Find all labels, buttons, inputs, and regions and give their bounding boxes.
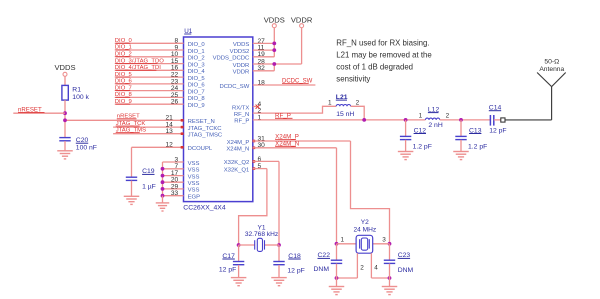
svg-text:DNM: DNM <box>314 266 330 273</box>
svg-text:2 nH: 2 nH <box>428 122 442 129</box>
svg-text:100 nF: 100 nF <box>76 145 97 152</box>
svg-text:1 µF: 1 µF <box>142 183 156 190</box>
svg-text:50-Ω: 50-Ω <box>544 58 559 65</box>
svg-text:13: 13 <box>165 128 173 135</box>
svg-text:RX/TX: RX/TX <box>232 105 249 111</box>
svg-text:Y2: Y2 <box>361 219 369 226</box>
svg-text:VSS: VSS <box>188 161 200 167</box>
svg-text:X32K_Q2: X32K_Q2 <box>224 160 250 166</box>
svg-text:VSS: VSS <box>188 188 200 194</box>
svg-text:1.2 pF: 1.2 pF <box>413 144 432 151</box>
svg-text:DIO_2: DIO_2 <box>188 56 205 62</box>
svg-text:RESET_N: RESET_N <box>188 119 215 125</box>
svg-text:VDDS: VDDS <box>264 15 285 24</box>
svg-text:2: 2 <box>446 112 450 119</box>
svg-text:32.768 kHz: 32.768 kHz <box>245 231 278 238</box>
svg-text:VDDS2: VDDS2 <box>230 49 250 55</box>
svg-text:33: 33 <box>171 190 179 197</box>
svg-text:12 pF: 12 pF <box>219 267 236 274</box>
svg-text:JTAG_TCKC: JTAG_TCKC <box>188 126 223 132</box>
svg-text:DIO_1: DIO_1 <box>188 49 205 55</box>
svg-text:cost of 1 dB degraded: cost of 1 dB degraded <box>336 63 413 72</box>
svg-text:1: 1 <box>419 112 423 119</box>
svg-text:DIO_4: DIO_4 <box>188 69 206 75</box>
svg-text:Antenna: Antenna <box>539 66 564 73</box>
svg-text:DNM: DNM <box>398 267 414 274</box>
svg-text:VDDS: VDDS <box>233 42 249 48</box>
svg-text:VDDR: VDDR <box>233 63 250 69</box>
svg-text:12 pF: 12 pF <box>287 267 304 274</box>
svg-text:DCDC_SW: DCDC_SW <box>220 84 250 90</box>
svg-text:VDDS_DCDC: VDDS_DCDC <box>213 56 250 62</box>
svg-text:24 MHz: 24 MHz <box>353 227 376 234</box>
svg-text:2: 2 <box>356 100 360 107</box>
svg-text:DIO_8: DIO_8 <box>188 96 206 102</box>
svg-text:VSS: VSS <box>188 181 200 187</box>
svg-text:X32K_Q1: X32K_Q1 <box>224 167 250 173</box>
svg-text:X24M_N: X24M_N <box>226 147 249 153</box>
svg-text:VDDR: VDDR <box>291 15 313 24</box>
svg-text:sensitivity: sensitivity <box>336 75 370 84</box>
svg-text:VDDR: VDDR <box>233 70 250 76</box>
svg-text:12 pF: 12 pF <box>489 128 506 135</box>
svg-text:L21 may be removed at the: L21 may be removed at the <box>336 51 432 60</box>
svg-text:VSS: VSS <box>188 168 200 174</box>
svg-text:1: 1 <box>328 100 332 107</box>
svg-text:DIO_0: DIO_0 <box>188 42 206 48</box>
svg-text:X24M_P: X24M_P <box>227 140 250 146</box>
svg-text:CC26XX_4X4: CC26XX_4X4 <box>183 204 226 211</box>
svg-text:RF_N used for RX biasing.: RF_N used for RX biasing. <box>336 39 429 48</box>
svg-text:12: 12 <box>165 142 173 149</box>
svg-text:RF_P: RF_P <box>234 119 249 125</box>
svg-text:2: 2 <box>360 265 364 272</box>
svg-text:DIO_3: DIO_3 <box>188 62 206 68</box>
svg-text:DIO_9: DIO_9 <box>188 103 205 109</box>
svg-text:VSS: VSS <box>188 174 200 180</box>
svg-text:DIO_5: DIO_5 <box>188 76 206 82</box>
svg-text:1.2 pF: 1.2 pF <box>468 144 487 151</box>
svg-text:R1: R1 <box>72 86 81 93</box>
svg-text:26: 26 <box>171 99 179 106</box>
svg-text:EGP: EGP <box>188 195 201 201</box>
svg-text:RF_N: RF_N <box>234 112 249 118</box>
svg-text:1: 1 <box>341 236 345 243</box>
svg-text:DIO_6: DIO_6 <box>188 83 206 89</box>
svg-text:VDDS: VDDS <box>54 63 75 72</box>
svg-text:15 nH: 15 nH <box>336 111 354 118</box>
svg-text:DCOUPL: DCOUPL <box>188 146 213 152</box>
svg-text:3: 3 <box>382 236 386 243</box>
svg-text:JTAG_TMSC: JTAG_TMSC <box>188 133 223 139</box>
svg-text:100 k: 100 k <box>72 94 89 101</box>
svg-text:4: 4 <box>374 265 378 272</box>
svg-text:DIO_7: DIO_7 <box>188 89 205 95</box>
